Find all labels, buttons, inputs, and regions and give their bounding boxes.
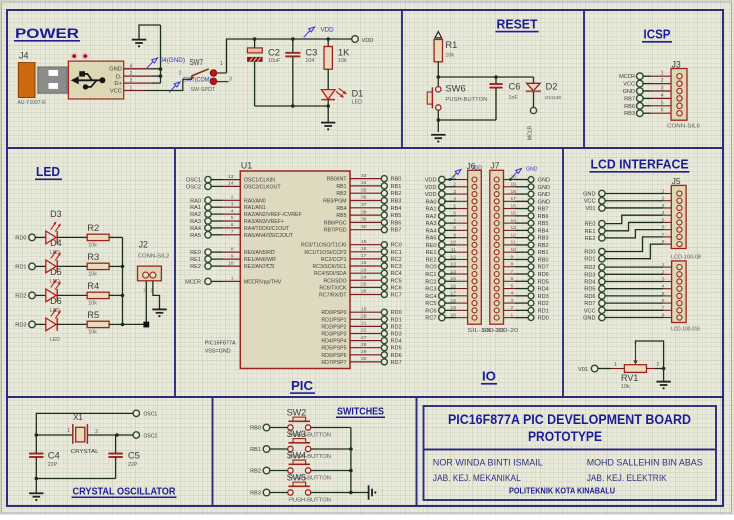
svg-text:CRYSTAL OSCILLATOR: CRYSTAL OSCILLATOR bbox=[73, 487, 177, 498]
wire J4 GND net vertical bbox=[139, 25, 161, 83]
svg-text:CONN-SIL6: CONN-SIL6 bbox=[667, 124, 700, 130]
pin stubs J4 bbox=[124, 69, 152, 91]
svg-text:RD0: RD0 bbox=[538, 316, 549, 322]
svg-text:2: 2 bbox=[511, 305, 514, 311]
J4 pin labels and numbers bbox=[109, 63, 132, 94]
svg-text:8: 8 bbox=[511, 262, 514, 268]
svg-text:RB7: RB7 bbox=[624, 96, 635, 102]
svg-text:RC2/CCP1: RC2/CCP1 bbox=[321, 257, 347, 263]
svg-text:RE1: RE1 bbox=[585, 229, 596, 235]
svg-text:7: 7 bbox=[231, 229, 234, 235]
svg-text:C5: C5 bbox=[128, 450, 140, 461]
svg-text:RD7: RD7 bbox=[584, 301, 595, 307]
svg-text:VDD: VDD bbox=[321, 27, 335, 34]
ICSP wires and pin numbers bbox=[643, 71, 671, 114]
svg-text:RC7: RC7 bbox=[425, 316, 436, 322]
wire resistor to LED D1 bbox=[327, 69, 329, 89]
svg-text:20: 20 bbox=[451, 312, 457, 318]
terminal VDD bbox=[352, 36, 374, 44]
wire RB2 to SW4 bbox=[270, 470, 288, 472]
svg-text:RD3: RD3 bbox=[584, 272, 595, 278]
svg-text:40: 40 bbox=[361, 224, 367, 230]
svg-text:RD2: RD2 bbox=[584, 265, 595, 271]
wire crystal left bbox=[36, 428, 73, 435]
svg-text:D-: D- bbox=[116, 74, 122, 80]
svg-text:RC1: RC1 bbox=[425, 272, 436, 278]
svg-text:MCLR/Vpp/THV: MCLR/Vpp/THV bbox=[244, 279, 282, 285]
svg-text:33: 33 bbox=[361, 173, 367, 179]
svg-text:RB5: RB5 bbox=[336, 213, 346, 219]
svg-text:MCLR: MCLR bbox=[185, 279, 201, 285]
svg-text:RA3: RA3 bbox=[426, 221, 437, 227]
svg-text:RC5/SDO: RC5/SDO bbox=[323, 278, 346, 284]
svg-text:1: 1 bbox=[231, 276, 234, 282]
svg-text:D3: D3 bbox=[50, 209, 62, 219]
svg-text:4: 4 bbox=[511, 291, 514, 297]
section title ICSP bbox=[642, 27, 672, 43]
IO left terminals labels wires bbox=[425, 174, 468, 321]
svg-text:RD3: RD3 bbox=[391, 332, 402, 338]
svg-text:RB7/PGD: RB7/PGD bbox=[324, 228, 347, 234]
svg-text:JAB. KEJ. MEKANIKAL: JAB. KEJ. MEKANIKAL bbox=[433, 473, 521, 484]
svg-text:RB7: RB7 bbox=[538, 207, 549, 213]
wire SW5 to common rail bbox=[311, 492, 351, 494]
svg-text:GND: GND bbox=[538, 178, 550, 184]
resistor 1K (10k) bbox=[324, 39, 350, 69]
svg-text:RB3: RB3 bbox=[250, 491, 261, 497]
svg-text:SW2: SW2 bbox=[287, 408, 307, 418]
J7 pin pads bbox=[494, 177, 499, 320]
svg-text:24: 24 bbox=[361, 275, 367, 281]
svg-text:12: 12 bbox=[451, 254, 457, 260]
push-button SW4 bbox=[287, 451, 332, 482]
svg-text:GND: GND bbox=[526, 166, 538, 172]
svg-text:RB3/PGM: RB3/PGM bbox=[323, 199, 346, 205]
svg-text:X1: X1 bbox=[73, 413, 83, 422]
svg-text:C3: C3 bbox=[305, 46, 317, 57]
svg-text:RD2: RD2 bbox=[391, 324, 402, 330]
svg-text:RC7/RX/DT: RC7/RX/DT bbox=[319, 293, 347, 299]
power terminal arrow RESET bbox=[435, 32, 442, 38]
svg-text:CONN-SIL2: CONN-SIL2 bbox=[138, 253, 170, 259]
junction dots switches rail bbox=[349, 447, 353, 494]
svg-text:RD2: RD2 bbox=[15, 293, 26, 299]
svg-text:RA3/AN3/VREF+: RA3/AN3/VREF+ bbox=[244, 219, 284, 225]
wire RD3 to LED bbox=[35, 323, 46, 325]
svg-text:GND: GND bbox=[623, 89, 635, 95]
svg-text:GND: GND bbox=[538, 185, 550, 191]
resistor R4 10k bbox=[87, 280, 109, 307]
svg-text:GND: GND bbox=[538, 199, 550, 205]
push-button SW3 bbox=[287, 429, 332, 460]
svg-text:RV1: RV1 bbox=[621, 373, 638, 383]
ground symbol J2 bbox=[152, 309, 166, 317]
svg-text:GND: GND bbox=[583, 192, 595, 198]
svg-text:RB2: RB2 bbox=[391, 191, 402, 197]
svg-text:RD7: RD7 bbox=[538, 265, 549, 271]
svg-text:RA0: RA0 bbox=[190, 198, 201, 204]
wire RB1 to SW3 bbox=[270, 448, 288, 450]
svg-text:10uF: 10uF bbox=[268, 58, 281, 64]
svg-text:J5: J5 bbox=[672, 176, 681, 186]
svg-text:3: 3 bbox=[453, 189, 456, 195]
svg-text:8: 8 bbox=[453, 225, 456, 231]
junction dots LED rail bbox=[121, 265, 125, 327]
J3 pin pads bbox=[677, 74, 682, 116]
ground symbol RESET bbox=[431, 134, 445, 142]
svg-text:RC3/SCK/SCL: RC3/SCK/SCL bbox=[312, 264, 346, 270]
svg-text:RD3: RD3 bbox=[15, 322, 26, 328]
svg-text:10k: 10k bbox=[88, 329, 97, 335]
svg-text:2: 2 bbox=[453, 182, 456, 188]
wire LED cathode rail bbox=[255, 100, 329, 122]
svg-text:LCD-100-016: LCD-100-016 bbox=[671, 327, 700, 333]
svg-text:1K: 1K bbox=[338, 46, 350, 57]
svg-text:GND: GND bbox=[109, 67, 122, 73]
title block names bbox=[433, 458, 703, 485]
svg-text:RD4: RD4 bbox=[391, 339, 402, 345]
svg-text:R5: R5 bbox=[87, 309, 99, 320]
svg-text:RB6/PGC: RB6/PGC bbox=[324, 220, 347, 226]
svg-text:R3: R3 bbox=[87, 251, 99, 262]
svg-text:RC1: RC1 bbox=[391, 250, 402, 256]
svg-text:RC2: RC2 bbox=[425, 279, 436, 285]
svg-text:RC7: RC7 bbox=[391, 293, 402, 299]
PIC right pin stubs and numbers bbox=[350, 173, 381, 362]
LED D6 bbox=[46, 296, 62, 343]
svg-text:8: 8 bbox=[231, 246, 234, 252]
svg-text:RB3: RB3 bbox=[391, 199, 402, 205]
net label VDD at J6 bbox=[448, 166, 482, 181]
svg-text:RE0: RE0 bbox=[190, 250, 201, 256]
push-button SW6 bbox=[427, 82, 488, 110]
svg-text:RB6: RB6 bbox=[624, 104, 635, 110]
net label J4(GND) bbox=[147, 57, 185, 68]
terminal RD0 bbox=[15, 234, 35, 241]
wire to crystal ground bbox=[35, 479, 37, 493]
svg-text:1: 1 bbox=[67, 428, 70, 434]
svg-text:1nF: 1nF bbox=[509, 95, 519, 101]
svg-text:RE2: RE2 bbox=[585, 236, 596, 242]
svg-text:D1: D1 bbox=[352, 88, 364, 98]
PIC left pin stubs and numbers bbox=[211, 174, 240, 282]
ground symbol power input bbox=[132, 39, 146, 47]
svg-text:RD1: RD1 bbox=[15, 264, 26, 270]
svg-text:U1: U1 bbox=[241, 161, 252, 171]
svg-text:RD4/PSP4: RD4/PSP4 bbox=[321, 339, 346, 345]
net label GND at J7 bbox=[509, 166, 538, 181]
svg-text:5: 5 bbox=[231, 215, 234, 221]
junction dots bottom rail bbox=[291, 104, 330, 108]
svg-text:RA1/AN1: RA1/AN1 bbox=[244, 205, 266, 211]
svg-text:RE2: RE2 bbox=[190, 264, 201, 270]
wire RV1 wiper to pin2 bbox=[636, 341, 664, 369]
svg-text:10: 10 bbox=[228, 260, 234, 266]
svg-text:22P: 22P bbox=[48, 462, 58, 468]
svg-text:3: 3 bbox=[661, 86, 664, 92]
terminal RB3 switches bbox=[250, 489, 270, 496]
LED D4 bbox=[46, 238, 62, 285]
resistor R1 10k bbox=[434, 39, 457, 62]
svg-text:4: 4 bbox=[231, 208, 234, 214]
J5 lower pin pads bbox=[677, 265, 682, 321]
capacitor C4 22P bbox=[29, 450, 60, 479]
section title POWER bbox=[14, 26, 80, 42]
svg-text:30: 30 bbox=[361, 356, 367, 362]
svg-text:VDD: VDD bbox=[425, 185, 437, 191]
svg-text:RA5: RA5 bbox=[426, 236, 437, 242]
svg-text:RB4: RB4 bbox=[391, 206, 402, 212]
wire LED to resistor R5 bbox=[57, 323, 87, 325]
svg-text:RB6: RB6 bbox=[538, 214, 549, 220]
svg-text:SIL-100-20: SIL-100-20 bbox=[481, 328, 518, 334]
svg-text:10k: 10k bbox=[338, 58, 347, 64]
svg-text:VCC: VCC bbox=[623, 82, 635, 88]
svg-text:RA5: RA5 bbox=[190, 233, 201, 239]
svg-text:JAB. KEJ. ELEKTRIK: JAB. KEJ. ELEKTRIK bbox=[587, 473, 668, 484]
wire VCC to switch bbox=[145, 76, 193, 90]
svg-text:VCC: VCC bbox=[584, 199, 596, 205]
svg-text:RB1: RB1 bbox=[391, 184, 402, 190]
svg-text:AU-Y1007-R: AU-Y1007-R bbox=[18, 100, 47, 106]
svg-text:20: 20 bbox=[511, 174, 517, 180]
svg-text:RB4: RB4 bbox=[336, 206, 346, 212]
wire SW4 to common rail bbox=[311, 470, 351, 472]
svg-text:OSC1/CLKIN: OSC1/CLKIN bbox=[244, 178, 275, 184]
svg-text:OSC1: OSC1 bbox=[186, 178, 201, 184]
svg-text:RD3: RD3 bbox=[538, 294, 549, 300]
svg-text:RB0: RB0 bbox=[538, 257, 549, 263]
svg-text:RD1/PSP1: RD1/PSP1 bbox=[321, 317, 346, 323]
svg-text:RD0: RD0 bbox=[15, 235, 26, 241]
wire crystal bottom rail bbox=[36, 478, 115, 480]
svg-text:RE1/AN6/WR: RE1/AN6/WR bbox=[244, 257, 276, 263]
svg-text:3: 3 bbox=[231, 201, 234, 207]
svg-text:RA0: RA0 bbox=[426, 199, 437, 205]
svg-text:SW5: SW5 bbox=[287, 473, 307, 483]
svg-text:RC4: RC4 bbox=[425, 294, 436, 300]
svg-text:9: 9 bbox=[453, 232, 456, 238]
svg-text:RD0: RD0 bbox=[391, 310, 402, 316]
svg-text:23: 23 bbox=[361, 267, 367, 273]
svg-text:RA4/T0CKI/C1OUT: RA4/T0CKI/C1OUT bbox=[244, 226, 290, 232]
node marker square bbox=[143, 322, 149, 328]
svg-text:RD5: RD5 bbox=[391, 346, 402, 352]
wire RB3 to SW5 bbox=[270, 492, 288, 494]
svg-text:D5: D5 bbox=[50, 267, 62, 277]
svg-text:R4: R4 bbox=[87, 280, 99, 291]
section title LCD INTERFACE bbox=[590, 158, 690, 173]
connector J2 CONN-SIL2 bbox=[138, 239, 170, 292]
net label VDD bbox=[304, 27, 334, 38]
svg-text:29: 29 bbox=[361, 349, 367, 355]
LCD straight terminals GND VCC V01 bbox=[583, 190, 672, 212]
svg-text:RA0/AN0: RA0/AN0 bbox=[244, 198, 266, 204]
svg-text:RE0/AN5/RD: RE0/AN5/RD bbox=[244, 250, 275, 256]
wire R3 to rail bbox=[109, 265, 122, 267]
svg-text:1: 1 bbox=[220, 61, 223, 67]
svg-text:RD6: RD6 bbox=[584, 294, 595, 300]
terminal RD3 bbox=[15, 321, 35, 328]
svg-text:J2: J2 bbox=[139, 239, 148, 249]
connector J6 SIL-100-20 bbox=[467, 161, 505, 334]
svg-text:RB2: RB2 bbox=[250, 469, 261, 475]
svg-text:18: 18 bbox=[511, 189, 517, 195]
svg-text:VCC: VCC bbox=[110, 89, 122, 95]
svg-text:J4: J4 bbox=[19, 51, 29, 61]
svg-text:MCLR: MCLR bbox=[619, 74, 635, 80]
connector J7 SIL-100-20 bbox=[481, 161, 518, 335]
svg-text:19: 19 bbox=[511, 182, 517, 188]
J6 pin pads bbox=[472, 177, 477, 320]
svg-text:SW4: SW4 bbox=[287, 451, 307, 461]
svg-text:VDD: VDD bbox=[471, 166, 482, 172]
wire LED to resistor R3 bbox=[57, 265, 87, 267]
capacitor C3 104 bbox=[285, 39, 317, 106]
svg-text:RB2: RB2 bbox=[538, 243, 549, 249]
resistor R3 10k bbox=[87, 251, 109, 278]
svg-text:RD6: RD6 bbox=[538, 272, 549, 278]
svg-text:RC4/SDI/SDA: RC4/SDI/SDA bbox=[314, 271, 347, 277]
svg-text:6: 6 bbox=[511, 276, 514, 282]
svg-text:RD2: RD2 bbox=[538, 301, 549, 307]
svg-text:PIC16F877A: PIC16F877A bbox=[205, 341, 236, 347]
svg-text:CRYSTAL: CRYSTAL bbox=[71, 449, 99, 455]
connector J4 USB (AU-Y1007-R) bbox=[18, 51, 124, 107]
terminal RB0 switches bbox=[250, 424, 270, 431]
svg-text:1: 1 bbox=[614, 362, 617, 368]
svg-text:10k: 10k bbox=[445, 53, 454, 59]
resistor R5 10k bbox=[87, 309, 109, 336]
svg-text:16: 16 bbox=[451, 283, 457, 289]
svg-text:35: 35 bbox=[361, 187, 367, 193]
svg-text:16: 16 bbox=[511, 203, 517, 209]
svg-text:POWER: POWER bbox=[15, 26, 79, 41]
svg-text:2: 2 bbox=[661, 78, 664, 84]
svg-text:5: 5 bbox=[453, 203, 456, 209]
section title SWITCHES bbox=[336, 407, 385, 419]
svg-text:13: 13 bbox=[228, 174, 234, 180]
svg-text:10k: 10k bbox=[621, 384, 630, 390]
svg-text:RD3/PSP3: RD3/PSP3 bbox=[321, 332, 346, 338]
svg-text:5: 5 bbox=[511, 283, 514, 289]
ground symbol power LED bbox=[321, 122, 335, 130]
svg-text:RD6/PSP6: RD6/PSP6 bbox=[321, 353, 346, 359]
IO right terminals labels wires bbox=[504, 174, 551, 321]
svg-text:RB3: RB3 bbox=[624, 111, 635, 117]
svg-text:GND: GND bbox=[583, 316, 595, 322]
svg-text:RC0/T1OSO/T1CKI: RC0/T1OSO/T1CKI bbox=[301, 243, 347, 249]
svg-text:PUSH-BUTTON: PUSH-BUTTON bbox=[289, 498, 331, 504]
svg-text:RC6: RC6 bbox=[425, 308, 436, 314]
svg-text:RA3: RA3 bbox=[190, 219, 201, 225]
svg-text:LCD-100-08: LCD-100-08 bbox=[671, 255, 701, 261]
svg-text:C6: C6 bbox=[509, 80, 521, 91]
svg-text:10k: 10k bbox=[88, 271, 97, 277]
section title CRYSTAL OSCILLATOR bbox=[72, 487, 177, 499]
svg-text:VDD: VDD bbox=[425, 178, 437, 184]
svg-text:RE2/AN7/CS: RE2/AN7/CS bbox=[244, 264, 275, 270]
svg-text:VDD: VDD bbox=[425, 192, 437, 198]
wire RV1 to ground bbox=[663, 369, 665, 382]
LED D5 bbox=[46, 267, 62, 314]
wire switch to VDD rail bbox=[227, 39, 352, 73]
op-amp U1 PIC16F877A chip body bbox=[205, 161, 350, 369]
svg-text:LED: LED bbox=[36, 164, 60, 179]
svg-text:1: 1 bbox=[453, 174, 456, 180]
svg-text:RB1: RB1 bbox=[336, 184, 346, 190]
terminal RB2 switches bbox=[250, 467, 270, 474]
svg-text:7: 7 bbox=[511, 269, 514, 275]
svg-text:RD4: RD4 bbox=[538, 287, 549, 293]
svg-text:6: 6 bbox=[661, 108, 664, 114]
svg-text:POLITEKNIK KOTA KINABALU: POLITEKNIK KOTA KINABALU bbox=[509, 486, 615, 496]
svg-text:4: 4 bbox=[453, 196, 456, 202]
wire switches common rail bbox=[350, 428, 352, 493]
svg-text:RB2: RB2 bbox=[336, 191, 346, 197]
wire LED to resistor R2 bbox=[57, 236, 87, 238]
svg-text:1: 1 bbox=[661, 71, 664, 77]
svg-text:RB1: RB1 bbox=[250, 447, 261, 453]
ground symbol RV1 bbox=[656, 381, 670, 389]
svg-text:34: 34 bbox=[361, 180, 367, 186]
wire crystal right OSC2 net bbox=[87, 429, 133, 435]
svg-text:NOR WINDA BINTI ISMAIL: NOR WINDA BINTI ISMAIL bbox=[433, 458, 543, 469]
title block heading bbox=[448, 412, 691, 444]
svg-text:J7: J7 bbox=[491, 161, 500, 171]
svg-text:25: 25 bbox=[361, 282, 367, 288]
svg-text:MOHD SALLEHIN BIN ABAS: MOHD SALLEHIN BIN ABAS bbox=[587, 458, 703, 469]
svg-text:12: 12 bbox=[511, 232, 517, 238]
LED D1 bbox=[321, 88, 363, 105]
wire R5 to rail bbox=[109, 323, 122, 325]
svg-text:OSC2: OSC2 bbox=[186, 184, 201, 190]
svg-text:18: 18 bbox=[361, 260, 367, 266]
svg-text:22: 22 bbox=[361, 328, 367, 334]
wire LED common rail bbox=[122, 237, 124, 324]
svg-text:2: 2 bbox=[179, 70, 182, 76]
svg-text:R1: R1 bbox=[445, 39, 457, 50]
svg-text:LED: LED bbox=[352, 99, 363, 105]
svg-text:RC1/T1OSI/CCP2: RC1/T1OSI/CCP2 bbox=[304, 250, 346, 256]
svg-text:D+: D+ bbox=[114, 81, 122, 87]
svg-text:RA1: RA1 bbox=[190, 205, 201, 211]
svg-text:RE1: RE1 bbox=[426, 250, 437, 256]
svg-text:11: 11 bbox=[511, 240, 516, 246]
svg-text:2: 2 bbox=[231, 195, 234, 201]
PIC right terminals and labels bbox=[381, 176, 401, 366]
push-button SW2 bbox=[287, 408, 332, 439]
svg-text:LED: LED bbox=[50, 337, 60, 343]
svg-text:RESET: RESET bbox=[497, 17, 538, 32]
wire SW6 bottom to ground bbox=[438, 111, 496, 132]
svg-text:19: 19 bbox=[451, 305, 457, 311]
junction dot at C6 top bbox=[494, 75, 498, 79]
svg-text:RC6: RC6 bbox=[391, 285, 402, 291]
wire R1 to SW6 and node bbox=[437, 62, 439, 86]
wire R2 to rail bbox=[109, 236, 122, 238]
svg-text:RD2/PSP2: RD2/PSP2 bbox=[321, 324, 346, 330]
svg-text:10k: 10k bbox=[88, 242, 97, 248]
svg-text:RD4: RD4 bbox=[584, 280, 595, 286]
svg-text:RB6: RB6 bbox=[391, 220, 402, 226]
svg-text:5: 5 bbox=[661, 100, 664, 106]
svg-text:RD5/PSP5: RD5/PSP5 bbox=[321, 346, 346, 352]
terminal RB1 switches bbox=[250, 446, 270, 453]
svg-text:39: 39 bbox=[361, 217, 367, 223]
svg-text:D6: D6 bbox=[50, 296, 62, 306]
svg-text:RC0: RC0 bbox=[425, 265, 436, 271]
